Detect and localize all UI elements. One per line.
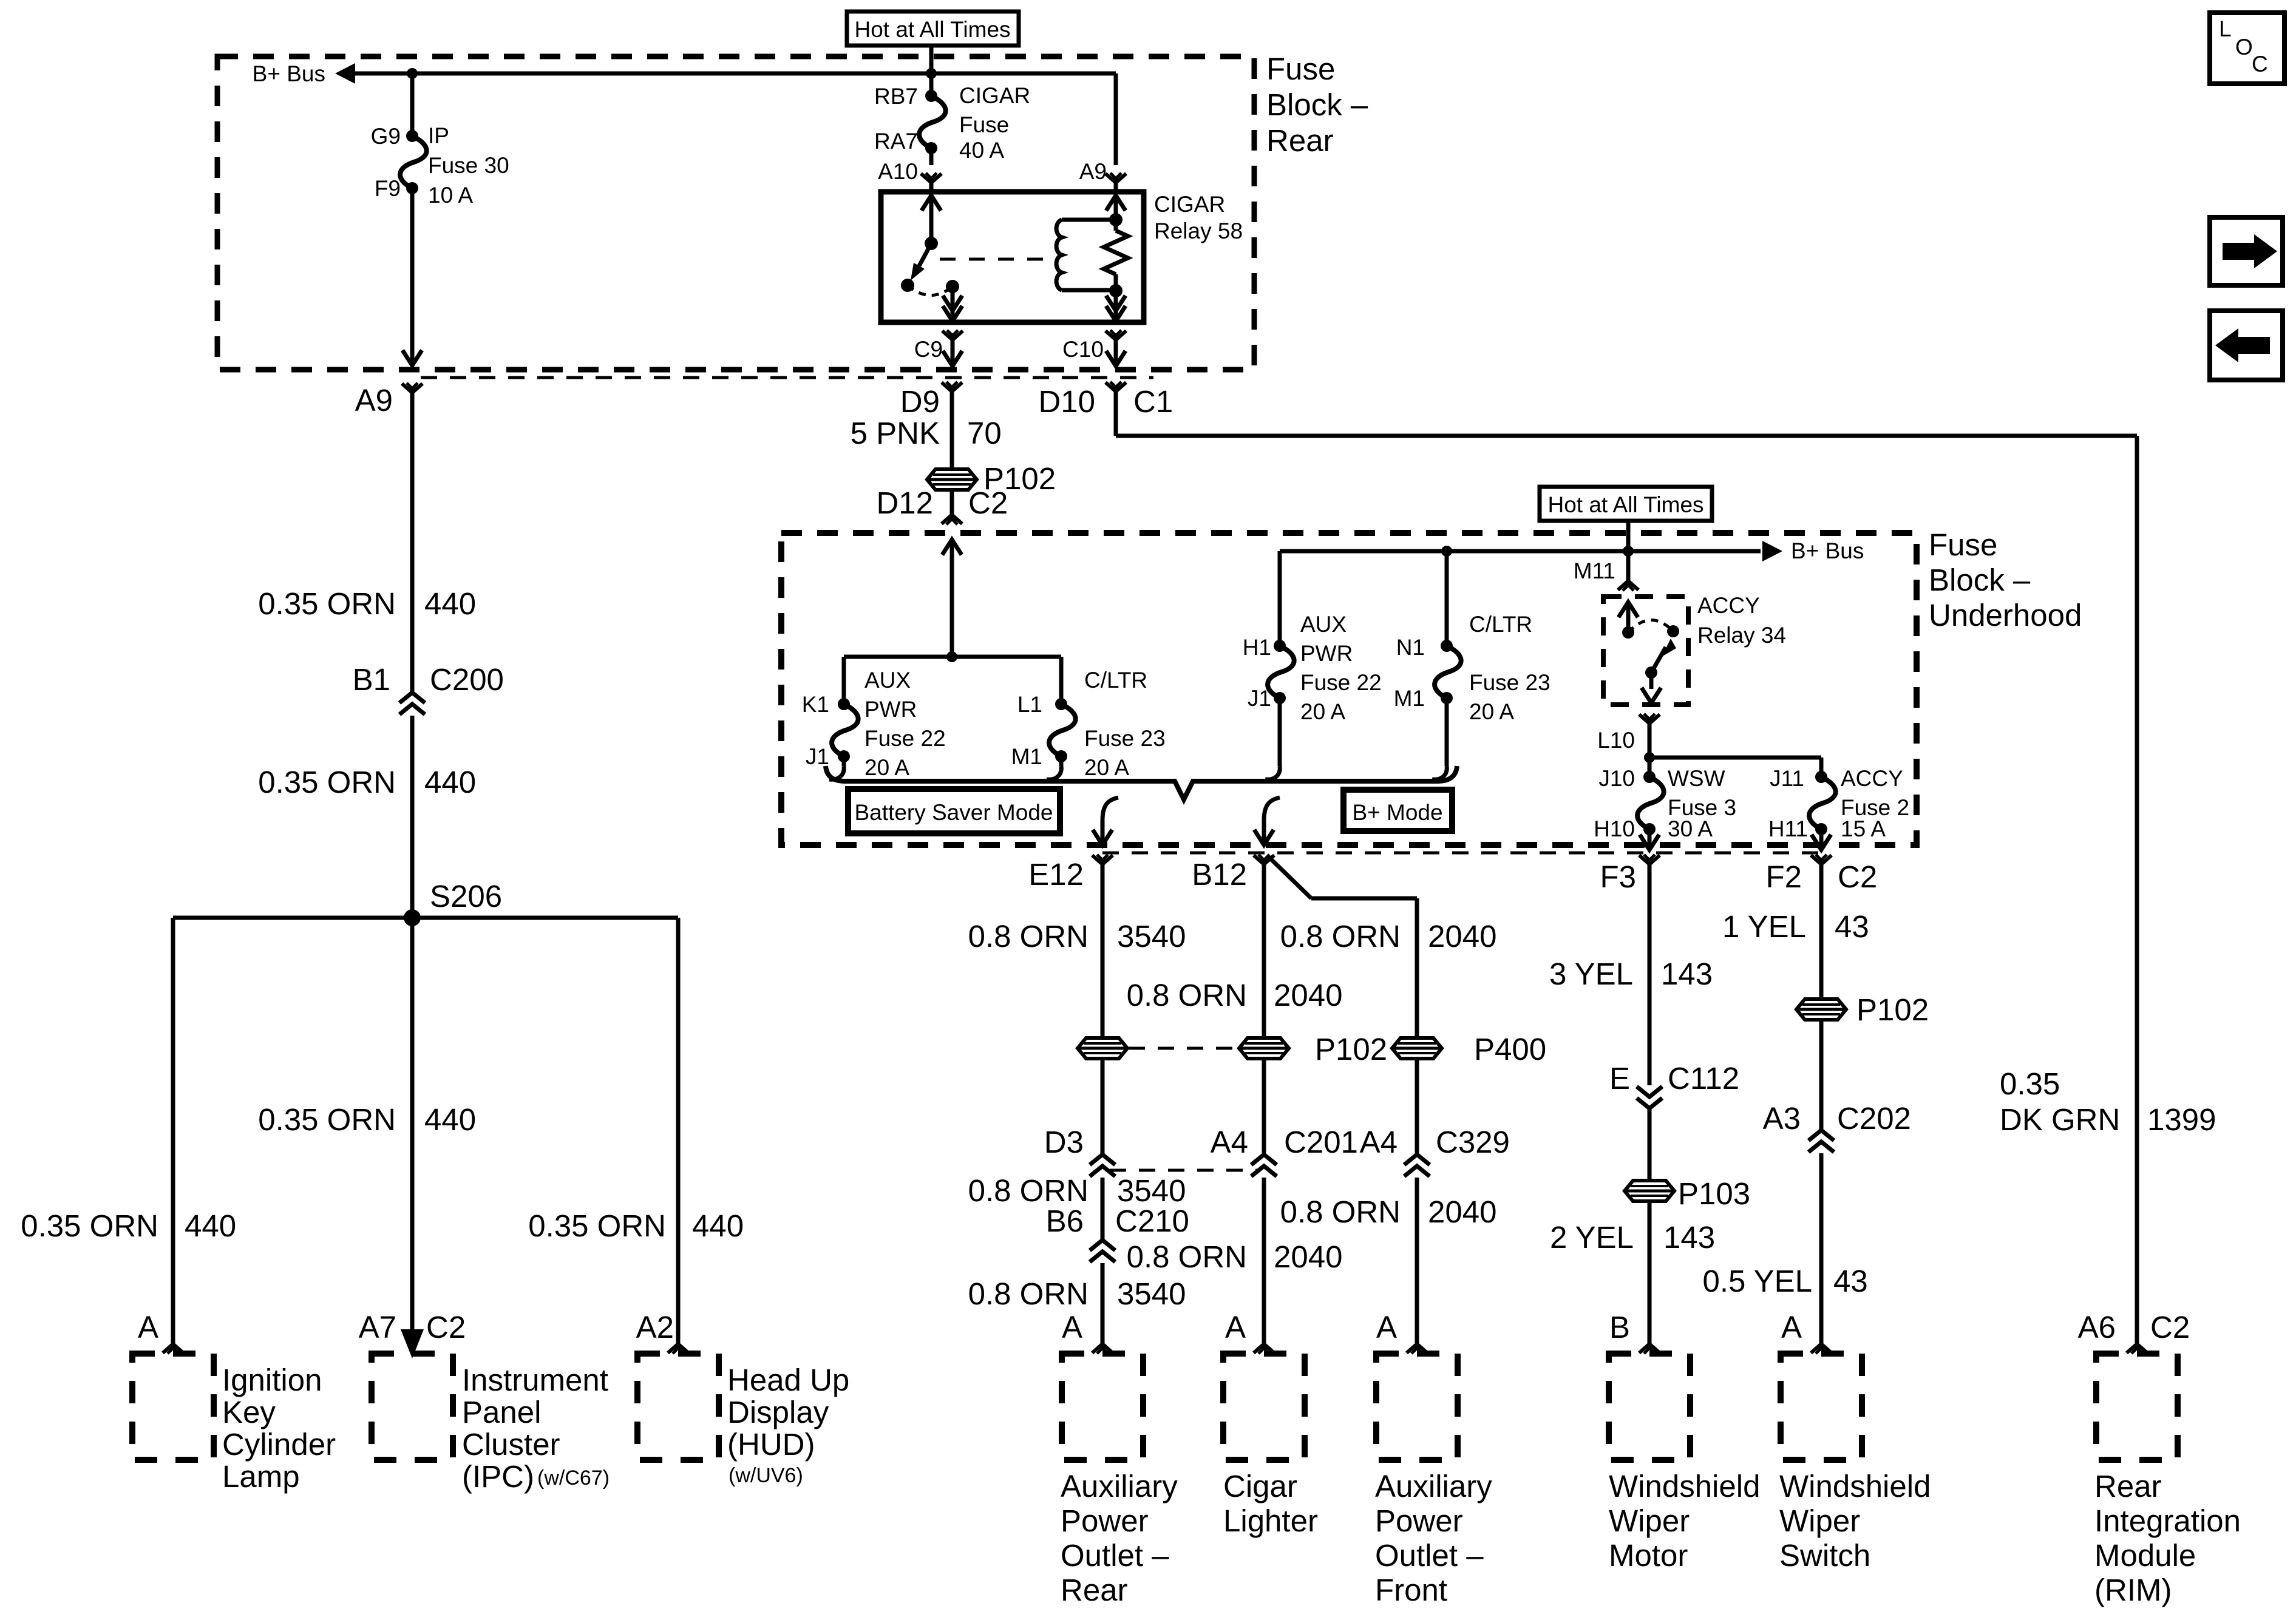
svg-text:F9: F9: [375, 176, 401, 201]
svg-text:P102: P102: [1856, 992, 1929, 1027]
svg-text:C210: C210: [1115, 1204, 1189, 1238]
svg-text:440: 440: [185, 1209, 236, 1243]
svg-text:A9: A9: [1079, 159, 1107, 184]
svg-text:0.35 ORN: 0.35 ORN: [258, 586, 396, 621]
svg-text:0.8 ORN: 0.8 ORN: [1127, 1239, 1247, 1274]
svg-text:0.8 ORN: 0.8 ORN: [968, 1173, 1089, 1208]
svg-text:2040: 2040: [1274, 1239, 1342, 1274]
svg-text:Power: Power: [1061, 1503, 1149, 1538]
svg-text:0.35 ORN: 0.35 ORN: [528, 1209, 666, 1243]
svg-text:H11: H11: [1768, 816, 1808, 841]
svg-text:J1: J1: [1248, 686, 1271, 711]
svg-text:440: 440: [692, 1209, 744, 1243]
svg-text:M1: M1: [1011, 744, 1042, 769]
svg-text:A4: A4: [1360, 1125, 1398, 1159]
svg-text:A2: A2: [636, 1310, 674, 1344]
svg-text:ACCY: ACCY: [1697, 593, 1760, 618]
svg-text:0.35 ORN: 0.35 ORN: [21, 1209, 158, 1243]
svg-text:10 A: 10 A: [428, 183, 473, 208]
svg-text:C/LTR: C/LTR: [1469, 612, 1532, 637]
svg-text:Fuse: Fuse: [1266, 52, 1335, 86]
svg-text:2040: 2040: [1428, 1195, 1496, 1229]
svg-text:D12: D12: [876, 486, 933, 520]
svg-text:AUX: AUX: [864, 668, 911, 693]
svg-text:A6: A6: [2078, 1310, 2116, 1344]
svg-text:D10: D10: [1038, 384, 1095, 419]
svg-text:Relay 58: Relay 58: [1154, 219, 1243, 243]
svg-text:Head Up: Head Up: [727, 1363, 849, 1397]
svg-text:B+ Bus: B+ Bus: [1791, 538, 1864, 563]
svg-text:0.8 ORN: 0.8 ORN: [1280, 919, 1401, 954]
svg-text:C9: C9: [914, 337, 943, 362]
svg-text:C1: C1: [1133, 384, 1173, 419]
svg-text:Windshield: Windshield: [1779, 1469, 1931, 1503]
svg-text:15 A: 15 A: [1841, 816, 1886, 841]
svg-text:Integration: Integration: [2094, 1503, 2241, 1538]
svg-text:Windshield: Windshield: [1609, 1469, 1760, 1503]
svg-text:Fuse: Fuse: [959, 112, 1009, 137]
svg-text:A: A: [1062, 1310, 1082, 1344]
svg-text:Outlet –: Outlet –: [1375, 1538, 1484, 1573]
svg-text:(RIM): (RIM): [2094, 1573, 2172, 1607]
svg-text:0.8 ORN: 0.8 ORN: [1127, 978, 1247, 1012]
svg-text:L10: L10: [1597, 728, 1635, 753]
svg-text:RA7: RA7: [874, 129, 918, 154]
svg-text:B12: B12: [1192, 857, 1247, 892]
svg-text:A10: A10: [878, 159, 918, 184]
svg-text:Wiper: Wiper: [1779, 1503, 1860, 1538]
svg-text:43: 43: [1835, 909, 1869, 944]
svg-text:C329: C329: [1436, 1125, 1510, 1159]
svg-text:ACCY: ACCY: [1841, 766, 1903, 791]
svg-text:Rear: Rear: [1266, 123, 1334, 158]
svg-text:(IPC): (IPC): [462, 1459, 534, 1494]
svg-text:J10: J10: [1598, 766, 1635, 791]
svg-text:0.35 ORN: 0.35 ORN: [258, 765, 396, 799]
svg-text:Front: Front: [1375, 1573, 1447, 1607]
svg-text:40 A: 40 A: [959, 138, 1004, 163]
svg-text:440: 440: [424, 765, 476, 799]
svg-text:Instrument: Instrument: [462, 1363, 608, 1397]
svg-text:A: A: [1225, 1310, 1246, 1344]
svg-text:3 YEL: 3 YEL: [1549, 957, 1633, 991]
svg-text:Hot at All Times: Hot at All Times: [854, 17, 1010, 42]
svg-text:20 A: 20 A: [1469, 699, 1514, 724]
svg-text:B6: B6: [1046, 1204, 1084, 1238]
svg-text:C2: C2: [2150, 1310, 2190, 1344]
svg-text:D3: D3: [1044, 1125, 1084, 1159]
svg-text:(HUD): (HUD): [727, 1427, 815, 1462]
svg-text:Outlet –: Outlet –: [1061, 1538, 1169, 1573]
svg-text:Lighter: Lighter: [1223, 1503, 1318, 1538]
svg-text:440: 440: [424, 586, 476, 621]
svg-text:J11: J11: [1770, 766, 1804, 791]
svg-text:143: 143: [1661, 957, 1713, 991]
svg-text:A: A: [1781, 1310, 1802, 1344]
svg-text:C202: C202: [1837, 1101, 1911, 1136]
svg-text:H10: H10: [1594, 816, 1635, 841]
svg-text:C2: C2: [968, 486, 1008, 520]
svg-text:A: A: [138, 1310, 158, 1344]
svg-text:3540: 3540: [1117, 1276, 1186, 1311]
svg-text:CIGAR: CIGAR: [959, 83, 1030, 108]
svg-text:Fuse 23: Fuse 23: [1084, 726, 1166, 751]
svg-text:0.8 ORN: 0.8 ORN: [968, 1276, 1089, 1311]
svg-text:5 PNK: 5 PNK: [851, 416, 940, 450]
svg-text:C2: C2: [1838, 859, 1877, 894]
svg-text:0.5 YEL: 0.5 YEL: [1702, 1264, 1812, 1298]
svg-text:Hot at All Times: Hot at All Times: [1547, 492, 1703, 517]
svg-text:A: A: [1376, 1310, 1397, 1344]
svg-text:Underhood: Underhood: [1929, 598, 2082, 632]
svg-text:Rear: Rear: [1061, 1573, 1128, 1607]
svg-text:C/LTR: C/LTR: [1084, 668, 1147, 693]
svg-text:0.8 ORN: 0.8 ORN: [968, 919, 1089, 954]
svg-text:Switch: Switch: [1779, 1538, 1870, 1573]
svg-text:K1: K1: [802, 692, 829, 717]
svg-text:A4: A4: [1211, 1125, 1248, 1159]
svg-text:43: 43: [1833, 1264, 1868, 1298]
svg-text:B: B: [1609, 1310, 1630, 1344]
svg-text:20 A: 20 A: [1300, 699, 1345, 724]
svg-text:143: 143: [1663, 1220, 1715, 1255]
svg-text:Module: Module: [2094, 1538, 2196, 1573]
svg-text:S206: S206: [430, 879, 502, 914]
svg-text:P102: P102: [1315, 1032, 1387, 1066]
svg-text:0.8 ORN: 0.8 ORN: [1280, 1195, 1401, 1229]
svg-text:M1: M1: [1394, 686, 1425, 711]
svg-text:N1: N1: [1396, 635, 1425, 660]
svg-text:2 YEL: 2 YEL: [1550, 1220, 1634, 1255]
svg-text:F3: F3: [1600, 859, 1636, 894]
svg-text:P103: P103: [1678, 1176, 1750, 1211]
svg-text:H1: H1: [1243, 635, 1271, 660]
svg-text:3540: 3540: [1117, 919, 1186, 954]
svg-text:1 YEL: 1 YEL: [1722, 909, 1806, 944]
svg-text:RB7: RB7: [874, 84, 918, 109]
svg-text:CIGAR: CIGAR: [1154, 192, 1225, 217]
svg-text:1399: 1399: [2147, 1102, 2216, 1137]
svg-text:Block –: Block –: [1929, 563, 2031, 597]
svg-text:3540: 3540: [1117, 1173, 1186, 1208]
svg-text:C112: C112: [1668, 1061, 1739, 1096]
svg-text:0.35: 0.35: [2000, 1066, 2060, 1101]
svg-text:O: O: [2235, 35, 2253, 59]
svg-text:Cluster: Cluster: [462, 1427, 560, 1462]
svg-text:C10: C10: [1062, 337, 1104, 362]
svg-text:B1: B1: [353, 662, 390, 697]
svg-text:M11: M11: [1574, 558, 1615, 583]
svg-text:Auxiliary: Auxiliary: [1061, 1469, 1178, 1503]
svg-text:B+ Bus: B+ Bus: [253, 61, 325, 86]
svg-text:20 A: 20 A: [864, 755, 909, 780]
svg-text:Ignition: Ignition: [222, 1363, 322, 1397]
svg-text:A7: A7: [359, 1310, 396, 1344]
svg-text:(w/UV6): (w/UV6): [729, 1464, 803, 1487]
svg-text:L: L: [2219, 16, 2232, 41]
svg-text:D9: D9: [900, 384, 940, 419]
svg-text:Fuse 30: Fuse 30: [428, 153, 509, 178]
svg-text:A3: A3: [1763, 1101, 1801, 1136]
svg-text:Key: Key: [222, 1395, 276, 1429]
svg-text:2040: 2040: [1428, 919, 1496, 954]
svg-text:0.35 ORN: 0.35 ORN: [258, 1102, 396, 1137]
svg-text:B+ Mode: B+ Mode: [1352, 800, 1442, 825]
svg-text:C: C: [2252, 52, 2268, 76]
svg-text:IP: IP: [428, 123, 449, 148]
svg-text:Motor: Motor: [1609, 1538, 1688, 1573]
svg-text:WSW: WSW: [1668, 766, 1725, 791]
svg-text:C201: C201: [1284, 1125, 1358, 1159]
svg-text:30 A: 30 A: [1668, 816, 1713, 841]
svg-text:PWR: PWR: [1300, 641, 1353, 666]
svg-text:E12: E12: [1028, 857, 1084, 892]
svg-text:E: E: [1609, 1061, 1630, 1096]
svg-text:PWR: PWR: [864, 697, 917, 722]
svg-text:Fuse: Fuse: [1929, 527, 1997, 562]
svg-text:Fuse 22: Fuse 22: [864, 726, 946, 751]
svg-text:G9: G9: [371, 124, 401, 149]
svg-text:2040: 2040: [1274, 978, 1342, 1012]
svg-text:Fuse 22: Fuse 22: [1300, 670, 1382, 695]
svg-text:P400: P400: [1474, 1032, 1546, 1066]
svg-text:L1: L1: [1017, 692, 1042, 717]
svg-text:Auxiliary: Auxiliary: [1375, 1469, 1492, 1503]
svg-text:Panel: Panel: [462, 1395, 541, 1429]
svg-text:AUX: AUX: [1300, 612, 1347, 637]
svg-text:70: 70: [967, 416, 1002, 450]
svg-text:440: 440: [424, 1102, 476, 1137]
svg-text:Cylinder: Cylinder: [222, 1427, 336, 1462]
svg-text:C200: C200: [430, 662, 504, 697]
svg-text:Relay 34: Relay 34: [1697, 623, 1786, 648]
svg-text:C2: C2: [426, 1310, 466, 1344]
svg-text:(w/C67): (w/C67): [537, 1466, 610, 1490]
svg-text:Battery Saver Mode: Battery Saver Mode: [855, 800, 1053, 825]
svg-text:Lamp: Lamp: [222, 1459, 300, 1494]
svg-text:DK GRN: DK GRN: [2000, 1102, 2120, 1137]
svg-text:Block –: Block –: [1266, 87, 1368, 122]
svg-text:Power: Power: [1375, 1503, 1463, 1538]
svg-text:A9: A9: [355, 383, 393, 418]
svg-text:J1: J1: [806, 744, 829, 769]
svg-text:Cigar: Cigar: [1223, 1469, 1297, 1503]
svg-text:Fuse 23: Fuse 23: [1469, 670, 1550, 695]
svg-text:20 A: 20 A: [1084, 755, 1129, 780]
svg-text:Display: Display: [727, 1395, 829, 1429]
svg-text:Rear: Rear: [2094, 1469, 2162, 1503]
svg-text:Wiper: Wiper: [1609, 1503, 1690, 1538]
svg-text:F2: F2: [1765, 859, 1802, 894]
